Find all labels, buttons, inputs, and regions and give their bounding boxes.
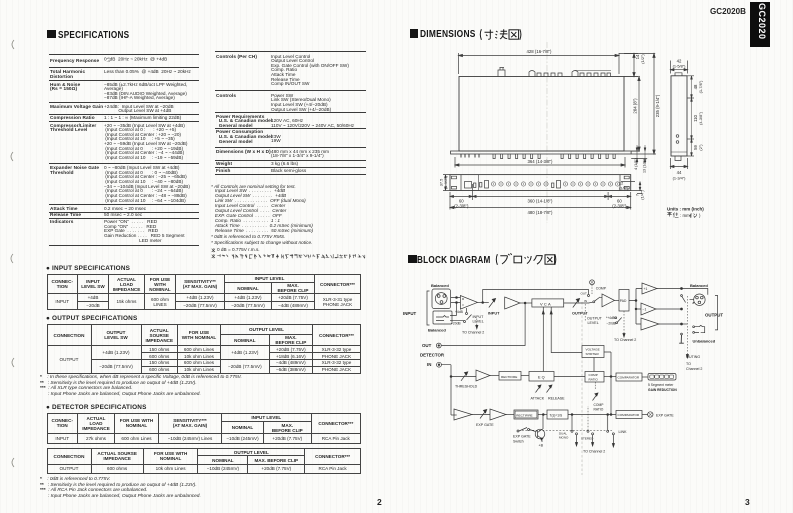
EQ block A2 — [529, 372, 554, 382]
svg-text:RECTIFIRE: RECTIFIRE — [501, 375, 517, 379]
svg-text:EXP GATE: EXP GATE — [513, 435, 531, 439]
comparator block A8 — [616, 411, 642, 419]
switch S4 balanced polarity — [681, 288, 683, 290]
wire comparator to lamp — [642, 414, 648, 416]
svg-text:MONO: MONO — [559, 436, 569, 440]
pot VR2 OUTPUT — [573, 299, 580, 308]
switch S9 stereo — [587, 430, 589, 432]
page number 2 — [377, 497, 382, 507]
wire VS to comp ratio — [593, 358, 595, 372]
rectifier block A1 — [499, 372, 521, 381]
japanese note sentence (pseudo-glyphs) — [217, 254, 367, 260]
svg-text:OUT: OUT — [581, 292, 588, 296]
VCA block — [532, 299, 564, 307]
switch S5 unbal out — [681, 323, 683, 325]
svg-text:13 (1/2"): 13 (1/2") — [643, 159, 647, 173]
pot VR1 INPUT — [489, 299, 496, 308]
svg-text:−20dB: −20dB — [451, 322, 461, 326]
svg-text:INPUT: INPUT — [403, 311, 416, 316]
svg-text:TO Channel 2: TO Channel 2 — [614, 338, 636, 342]
svg-text:THRESHOLD: THRESHOLD — [455, 385, 478, 389]
rear bump cluster 1 — [529, 71, 562, 77]
output spec table — [47, 324, 361, 373]
svg-text:): ) — [699, 213, 701, 218]
meter M1 5-segment — [648, 374, 676, 381]
svg-text:LINK: LINK — [619, 430, 628, 434]
wire to comparator 2 — [568, 414, 616, 416]
svg-text:(2"): (2") — [698, 144, 703, 151]
svg-text:(1/2"): (1/2") — [640, 54, 645, 64]
svg-text:OUTPUT: OUTPUT — [572, 312, 588, 316]
svg-text:235 (9-1/4"): 235 (9-1/4") — [655, 94, 660, 117]
input level switch S1 — [467, 308, 472, 320]
switch S6 muting — [681, 333, 683, 335]
op-amp U3 output amp — [602, 294, 615, 307]
footnotes under right spec column — [211, 185, 401, 234]
dim 110 right side — [687, 138, 694, 140]
svg-text:SHIFTER: SHIFTER — [586, 352, 600, 356]
svg-text:5 Segment meter: 5 Segment meter — [648, 383, 674, 387]
svg-text:COMP: COMP — [596, 287, 607, 291]
dashed to channel2 from PAD — [623, 311, 625, 335]
heading DIMENSIONS — [410, 28, 490, 40]
dim 428 top — [459, 53, 620, 74]
front panel bar of top view — [451, 151, 631, 154]
svg-text:COMPARATOR: COMPARATOR — [618, 413, 640, 417]
wire U9 to rectifier 2 — [506, 414, 514, 416]
wire det out tap — [441, 303, 525, 346]
detector out jack J5 — [436, 343, 441, 348]
dim 60/360/60 — [450, 184, 631, 200]
svg-text:364 (14-3/8"): 364 (14-3/8") — [528, 159, 554, 164]
pot VR4 attack — [536, 385, 542, 393]
integrator block A7 T(s)=1/S — [538, 414, 547, 416]
svg-text:(2-3/8"): (2-3/8") — [612, 203, 627, 208]
svg-text:COMP: COMP — [594, 403, 605, 407]
svg-text:(4-3/8"): (4-3/8") — [698, 111, 703, 125]
DETECTOR SPECIFICATIONS heading — [46, 404, 147, 411]
svg-text:RELEASE: RELEASE — [548, 397, 565, 401]
dim 14 right top — [619, 54, 638, 77]
right spec column — [0, 0, 793, 1]
pot VR6 comp ratio — [595, 382, 597, 389]
mechanical dashed link — [522, 429, 612, 431]
switch S2 comp in/out — [588, 295, 590, 297]
op-amp U9 — [490, 409, 506, 420]
wire det in to paths — [441, 365, 451, 415]
left spec column — [0, 0, 793, 1]
wire EQ to comp ratio — [554, 376, 585, 378]
lamp EXP GATE — [648, 412, 653, 417]
svg-text:360 (14-1/8"): 360 (14-1/8") — [528, 198, 554, 203]
dim 4 / 13 bottom right of top view — [631, 151, 647, 158]
svg-text:Channel 2: Channel 2 — [686, 367, 702, 371]
side view screws — [676, 135, 679, 138]
side view rect — [671, 76, 687, 156]
op-amp U2 buffer — [505, 297, 520, 309]
fold crease dashed line — [581, 302, 583, 475]
svg-text:IN: IN — [427, 362, 431, 367]
svg-text:LEVEL: LEVEL — [588, 321, 599, 325]
dashed link comp sw — [584, 304, 586, 322]
svg-text:Balanced: Balanced — [431, 283, 449, 288]
svg-text:Units : mm (inch): Units : mm (inch) — [667, 207, 704, 212]
input phone jack J2 — [433, 311, 452, 324]
comparator block A5 — [616, 373, 642, 381]
OUTPUT SPECIFICATIONS heading — [46, 315, 137, 322]
svg-text:STEREO: STEREO — [581, 437, 594, 441]
svg-text:+B: +B — [539, 444, 544, 448]
dim 48 right side — [687, 76, 694, 98]
op-amp U4 +1 — [642, 283, 657, 294]
detector input table — [47, 413, 361, 444]
switch S3 output level — [617, 318, 621, 323]
svg-text:−20dB: −20dB — [607, 322, 616, 326]
svg-text:GAIN REDUCTION: GAIN REDUCTION — [648, 388, 677, 392]
svg-text:Unbalanced: Unbalanced — [693, 339, 716, 344]
wire U1 out to pot — [478, 302, 489, 304]
svg-text:428 (16-7/8"): 428 (16-7/8") — [527, 49, 553, 54]
wire VS to exp comparator — [604, 352, 611, 415]
svg-text:VCA: VCA — [540, 302, 552, 307]
wire U6 to switch — [659, 323, 681, 325]
svg-text:LEVEL: LEVEL — [473, 320, 484, 324]
svg-text:PAD: PAD — [620, 299, 627, 303]
svg-text:(1-1/2"): (1-1/2") — [443, 175, 448, 189]
output table notes — [40, 375, 400, 397]
right rack ear slots — [620, 175, 629, 191]
svg-text:E Q: E Q — [538, 375, 545, 379]
output XLR connector J3 — [694, 294, 705, 305]
svg-text:(1-7/8"): (1-7/8") — [698, 80, 703, 94]
wire to channel 2 arrow — [476, 319, 478, 326]
comp ratio block A4 — [585, 372, 604, 383]
switch S8 dual mono — [571, 430, 573, 432]
kanji (burokku-zu) — [494, 253, 557, 266]
dim 235 — [624, 54, 656, 155]
reference mark kome 1 — [211, 248, 216, 253]
AC connector on rear edge — [498, 68, 505, 77]
svg-text:VOLTAGE: VOLTAGE — [586, 348, 600, 352]
side view bottom stub — [675, 156, 681, 161]
page number 3 — [745, 497, 750, 507]
transistor Q1 — [535, 429, 545, 439]
dim 12 and 7 right of front view — [621, 182, 642, 194]
svg-text:(1/4"): (1/4") — [639, 190, 644, 200]
svg-text:−1: −1 — [643, 308, 647, 312]
svg-text:4 (1/8"): 4 (1/8") — [634, 158, 638, 170]
svg-text:Balanced: Balanced — [690, 283, 708, 288]
block diagram texts — [403, 283, 723, 454]
svg-text:RATIO: RATIO — [594, 408, 604, 412]
svg-text:+4dB: +4dB — [455, 310, 464, 314]
switch S7 exp gate — [517, 430, 519, 432]
front view outer rect — [450, 175, 631, 191]
svg-text:EXP GATE: EXP GATE — [656, 413, 674, 417]
op-amp U5 -1 — [641, 303, 656, 315]
svg-text:Balanced: Balanced — [428, 328, 446, 333]
kanji (sunpouzu) — [478, 28, 523, 41]
units note japanese (tanni : mm inch) — [667, 212, 678, 218]
wire U3 to PAD — [615, 299, 620, 301]
svg-text:(2-3/8"): (2-3/8") — [454, 203, 469, 208]
svg-text:44: 44 — [677, 170, 682, 175]
svg-text:COMPARATOR: COMPARATOR — [618, 375, 640, 379]
dim 44 below side view — [671, 158, 688, 169]
input spec table — [47, 274, 362, 310]
svg-text:+1: +1 — [644, 287, 648, 291]
svg-text:(1-5/8"): (1-5/8") — [673, 63, 687, 68]
wire VCA control feeds — [543, 307, 582, 372]
wire VCA to output pot — [564, 301, 593, 304]
svg-text:OUT: OUT — [422, 343, 432, 348]
wire U5 to switch — [656, 308, 681, 310]
svg-text:RATIO: RATIO — [589, 377, 599, 381]
detector output table — [47, 448, 361, 474]
INPUT SPECIFICATIONS heading — [46, 265, 130, 272]
wire phone jack to amp U1 — [450, 303, 464, 321]
mid small controls — [552, 183, 554, 188]
output bracket — [715, 296, 718, 330]
arrow dual mono — [575, 443, 577, 447]
svg-text:(1-3/4"): (1-3/4") — [673, 176, 687, 181]
dim 480 — [450, 200, 631, 210]
power switch + small controls — [477, 175, 479, 191]
black index tab GC2020 — [750, 2, 770, 47]
wire comp bypass (OUT) — [483, 290, 589, 303]
svg-text:RECTIFIRE: RECTIFIRE — [516, 414, 532, 418]
svg-text:MUTING: MUTING — [686, 355, 700, 359]
svg-text:*+4dB: *+4dB — [606, 316, 615, 320]
binding marks left margin — [6, 38, 22, 478]
detector table notes — [40, 477, 400, 499]
top view chassis rectangle — [459, 77, 624, 152]
dim 37.5 left of front view — [443, 175, 450, 191]
wire U2 to VCA — [520, 302, 532, 304]
op-amp U8 exp amp — [451, 414, 457, 416]
wire U7 to rectifier — [490, 375, 499, 377]
knobs group 1 — [491, 182, 548, 186]
op-amp U7 — [476, 370, 490, 381]
pot VR3 threshold — [451, 372, 476, 381]
wire comparator to meter — [642, 376, 648, 378]
output phone jack J4 — [695, 325, 705, 332]
rectifier block A6 — [514, 410, 538, 419]
svg-text:204 (8"): 204 (8") — [633, 98, 638, 114]
left rack ear slots — [452, 175, 462, 191]
input bracket — [427, 291, 430, 325]
reference mark kome 2 — [211, 254, 216, 259]
svg-text:DETECTOR: DETECTOR — [420, 353, 445, 358]
svg-text:480 (18-7/8"): 480 (18-7/8") — [528, 210, 554, 215]
dimensions drawing — [435, 40, 710, 225]
block diagram — [400, 276, 732, 476]
wire comp ratio to comparator — [604, 376, 616, 378]
switch S10 link — [607, 430, 609, 432]
svg-text:TO Channel 2: TO Channel 2 — [462, 330, 484, 334]
svg-text:INPUT: INPUT — [488, 312, 500, 316]
svg-text:TO: TO — [686, 362, 691, 366]
heading SPECIFICATIONS — [47, 29, 149, 41]
dim 59 right side — [687, 155, 694, 157]
svg-text:T(s)=1/S: T(s)=1/S — [550, 413, 564, 417]
detector in jack J6 — [437, 362, 442, 367]
dim 42 above side view — [671, 61, 688, 74]
wire input XLR to amp U1 — [451, 298, 460, 303]
wire rect to EQ — [521, 375, 529, 377]
svg-text:EXP GATE: EXP GATE — [476, 423, 494, 427]
PAD block — [619, 290, 629, 312]
dimension texts — [439, 49, 704, 215]
units note — [667, 207, 704, 212]
wire U4 to switch — [657, 288, 681, 290]
lamp COMP — [590, 280, 595, 285]
heading BLOCK DIAGRAM — [408, 254, 511, 266]
node input junctions — [456, 297, 458, 299]
knobs group 2 — [563, 182, 619, 186]
centerline — [546, 42, 548, 223]
input XLR connector J1 — [432, 289, 451, 309]
svg-text:(1/2"): (1/2") — [619, 186, 629, 191]
svg-text:Switch: Switch — [513, 440, 524, 444]
svg-text:TO Channel 2: TO Channel 2 — [583, 450, 605, 454]
GC2020B label — [710, 6, 746, 16]
op-amp U1 input amp — [460, 296, 477, 310]
svg-text:ATTACK: ATTACK — [531, 397, 545, 401]
op-amp U6 unbal — [641, 318, 659, 330]
pot VR5 release — [547, 385, 553, 393]
dim 204 — [624, 77, 640, 151]
svg-text:INPUT: INPUT — [473, 315, 485, 319]
knob shafts under panel — [461, 154, 479, 158]
svg-text:IN: IN — [584, 299, 587, 303]
wire PAD to output amps — [629, 289, 642, 325]
svg-text:OUTPUT: OUTPUT — [587, 317, 603, 321]
rear bump cluster 2 — [572, 71, 611, 77]
svg-text:OUTPUT: OUTPUT — [705, 313, 723, 318]
voltage shifter block A3 — [582, 346, 604, 358]
pot VR7 exp gate — [472, 410, 490, 419]
dim 364 under top view — [455, 157, 625, 168]
